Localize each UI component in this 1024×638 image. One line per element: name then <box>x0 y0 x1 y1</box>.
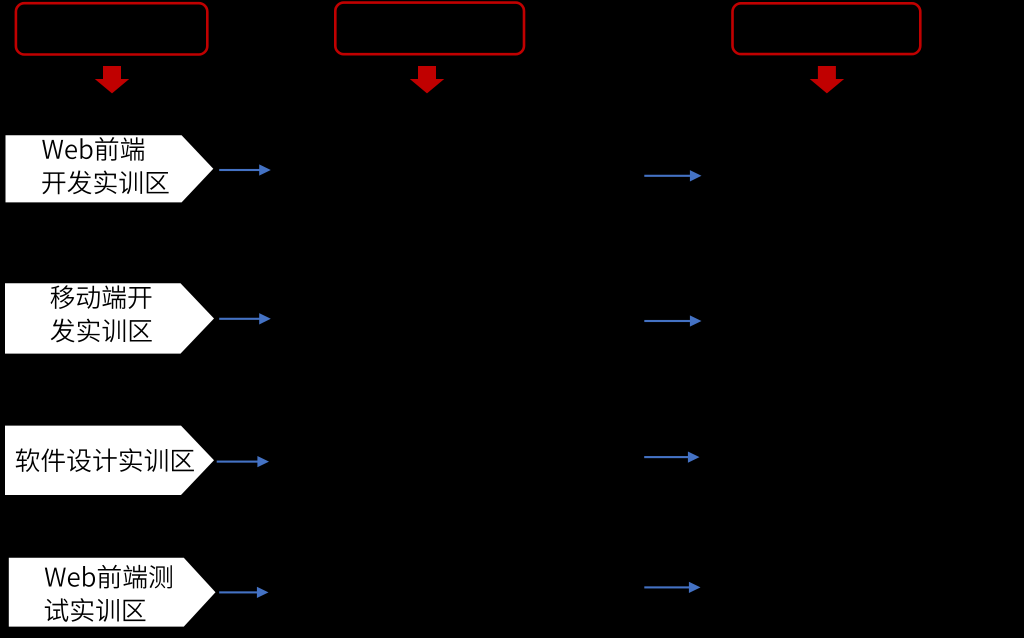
pentagon 2 text line 1 <box>51 285 152 309</box>
red down arrow 1 <box>95 66 129 93</box>
pentagon 3 text line 1 <box>16 448 194 472</box>
blue arrow row2 col1 <box>219 313 271 324</box>
blue arrow row1 col2 <box>644 170 701 181</box>
red down arrow 3 <box>810 66 844 93</box>
pentagon 1 text line 2 <box>42 170 168 194</box>
pentagon 4 text line 2 <box>45 598 146 622</box>
blue arrow row2 col2 <box>644 315 701 326</box>
box 1 (top-left red rounded rect) <box>16 3 207 54</box>
box 2 (top-middle red rounded rect) <box>335 3 524 55</box>
blue arrow row4 col2 <box>644 582 700 593</box>
blue arrow row4 col1 <box>219 587 268 598</box>
red down arrow 2 <box>410 66 444 93</box>
pentagon 1 text line 1 <box>42 137 144 161</box>
pentagon 2 text line 2 <box>51 319 152 343</box>
pentagon 4 text line 1 <box>45 565 172 589</box>
pentagon 3 (软件设计实训区) <box>5 426 214 495</box>
blue arrow row3 col1 <box>217 456 269 467</box>
pentagon 4 (Web前端测试实训区) <box>9 558 216 627</box>
blue arrow row3 col2 <box>644 451 699 462</box>
pentagon 1 (Web前端开发实训区) <box>6 135 214 202</box>
pentagon 2 (移动端开发实训区) <box>5 283 214 353</box>
blue arrow row1 col1 <box>219 164 271 175</box>
box 3 (top-right red rounded rect) <box>733 3 921 54</box>
